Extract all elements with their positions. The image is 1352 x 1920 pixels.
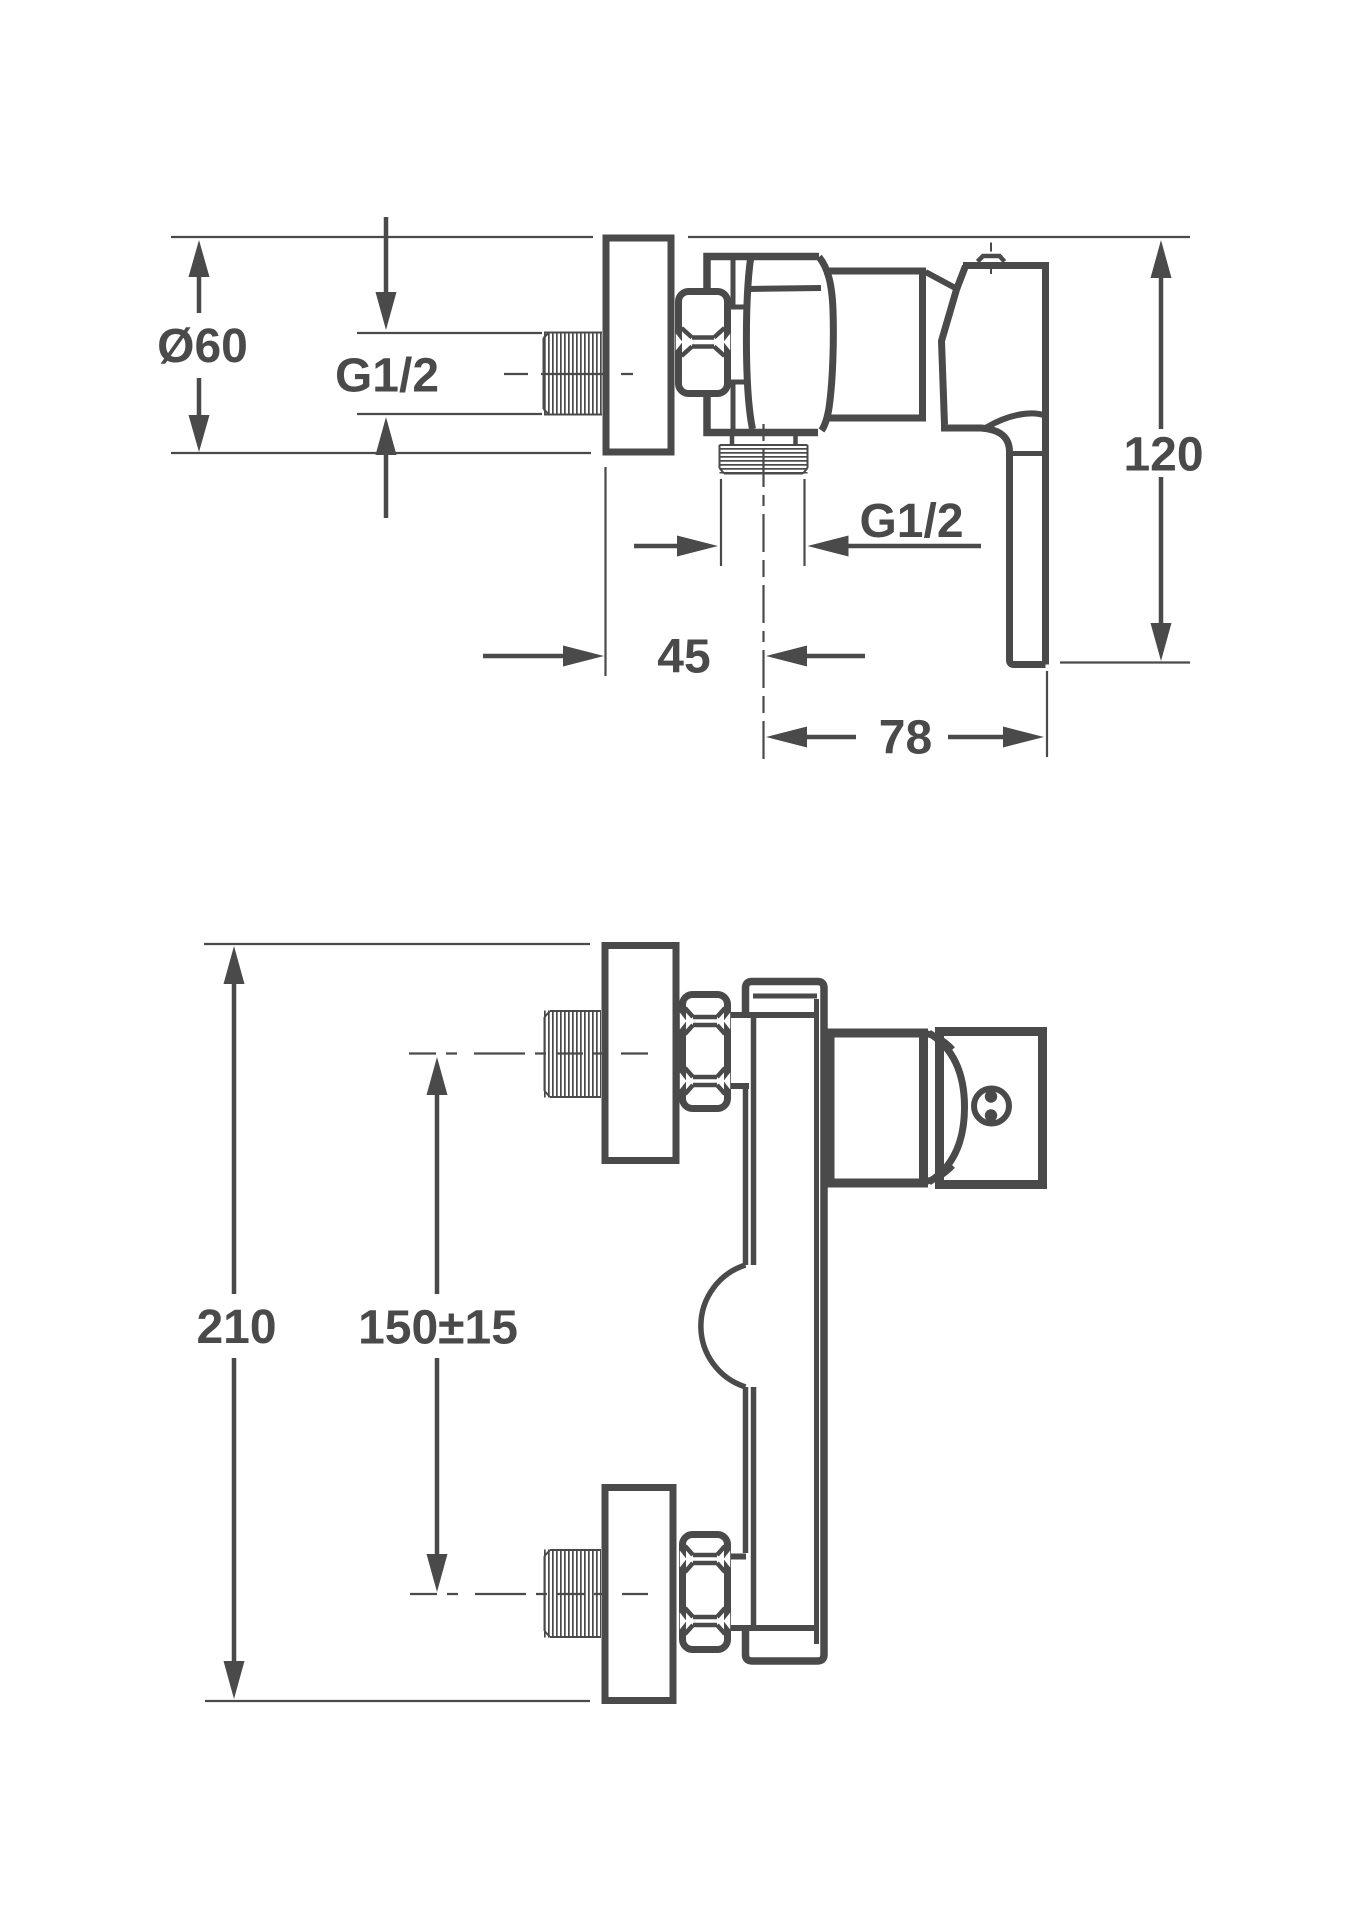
wire dim reference top line left (171, 236, 593, 238)
cap top edge (963, 262, 1046, 269)
centerline lower axis (410, 1593, 648, 1595)
upper hex nut (683, 995, 728, 1109)
lower wall plate (605, 1488, 673, 1701)
dim 150 top arrow (427, 1057, 448, 1095)
cylinder body (824, 271, 923, 418)
barrel left edge (746, 259, 752, 429)
dim 150 bottom arrow (435, 1358, 440, 1554)
sleeve line upper short (731, 1083, 749, 1089)
dim 120 bottom arrow (1159, 477, 1164, 623)
dome arc (929, 1033, 965, 1182)
body outer contour (746, 982, 825, 1662)
dim G1/2 down arrow (384, 217, 389, 292)
bonnet bottom and neck (941, 428, 1010, 452)
dim G1/2 outlet right arrow (808, 536, 849, 557)
dim 78 right arrow (948, 735, 1003, 740)
neck top arc (987, 413, 1046, 427)
dim G1/2 up arrow (376, 417, 397, 455)
outlet extension line left (720, 479, 722, 566)
svg-text:210: 210 (196, 1301, 276, 1354)
sleeve line upper long (731, 1012, 817, 1018)
outlet thread G1/2 (720, 445, 808, 474)
svg-text:G1/2: G1/2 (859, 495, 963, 548)
plate extension line (604, 467, 606, 676)
handle screw circle (974, 1089, 1009, 1124)
dim Ø60 upper arrow (189, 240, 210, 277)
dim 120 top arrow (1151, 240, 1172, 278)
screw tick marks (990, 243, 992, 275)
barrel shoulder line (748, 288, 821, 289)
dim G1/2 outlet left arrow (634, 544, 677, 549)
dim 78 left arrow (766, 727, 807, 748)
cap and handle right edge (1042, 262, 1049, 665)
lower thread G1/2 (544, 1550, 601, 1638)
dome ear top (924, 1033, 953, 1050)
dim Ø60 lower arrow (189, 415, 210, 452)
body left edge lower segment (743, 1387, 749, 1553)
lower hex nut (683, 1535, 728, 1650)
upper wall plate (605, 946, 676, 1161)
wire dim reference top line right (688, 236, 1190, 238)
dim 120 bottom reference line (1060, 661, 1190, 663)
centerline upper axis (409, 1052, 648, 1054)
body inner right line (814, 999, 819, 1644)
neck inner line (1013, 451, 1042, 456)
screw bump (978, 256, 1005, 262)
sleeve line lower short (731, 1554, 746, 1560)
body left edge upper segment (743, 1089, 749, 1265)
dim 210 bottom arrow (232, 1358, 237, 1663)
union sleeve upper (733, 260, 747, 307)
dim G1/2 extension line upper (357, 332, 542, 334)
valve body front (830, 1033, 924, 1183)
wall plate escutcheon (606, 238, 671, 452)
handle extension line (1046, 671, 1048, 757)
vertical centerline outlet (762, 424, 764, 762)
upper thread G1/2 (544, 1011, 601, 1098)
svg-text:150±15: 150±15 (358, 1302, 518, 1355)
wire dim reference bottom line (171, 452, 591, 454)
body inner top line (753, 994, 817, 999)
bonnet diagonal (926, 272, 960, 290)
svg-text:G1/2: G1/2 (335, 350, 439, 403)
svg-text:120: 120 (1123, 429, 1203, 482)
handle bar bottom and left edge (1010, 452, 1046, 665)
wall nipple thread G1/2 (543, 332, 602, 416)
wire dim reference bottom line (205, 1700, 590, 1702)
union sleeve lower (733, 382, 747, 429)
body left bump (701, 1265, 746, 1387)
dim 45 left arrow (483, 654, 563, 659)
dim 45 right arrow (766, 646, 807, 667)
svg-text:78: 78 (879, 712, 932, 765)
wire dim reference top line (204, 943, 590, 945)
body inner left line (751, 1015, 757, 1628)
outlet extension line right (803, 479, 805, 566)
svg-text:Ø60: Ø60 (157, 320, 248, 373)
hex nut side (679, 292, 728, 394)
handle plate front (940, 1032, 1043, 1185)
valve frame C-bracket (707, 257, 819, 433)
sleeve line lower long (731, 1625, 817, 1631)
bonnet left edge (942, 266, 966, 425)
dim G1/2 extension line lower (357, 413, 542, 415)
svg-text:45: 45 (657, 631, 710, 684)
outlet connectors (732, 436, 796, 445)
barrel right edge (819, 257, 833, 431)
dim 210 top arrow (224, 946, 245, 984)
centerline horizontal axis (504, 373, 633, 375)
dome ear bottom (924, 1166, 953, 1183)
